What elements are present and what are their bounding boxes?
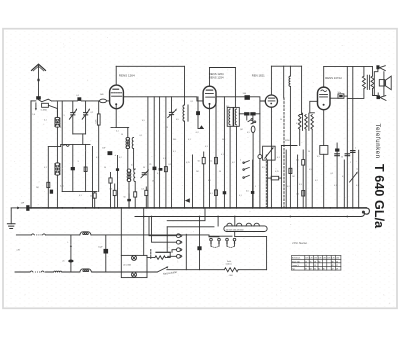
label 0,1e [331, 173, 334, 175]
capacitor coupling [245, 95, 250, 100]
trimmer C1 [69, 101, 77, 134]
svg-text:25: 25 [149, 164, 151, 166]
wire contact4 feed [168, 256, 177, 257]
svg-text:1,85: 1,85 [318, 258, 321, 260]
value label [44, 167, 47, 169]
junction [323, 207, 325, 209]
wire band to rect [234, 232, 236, 237]
label 1W [102, 148, 105, 150]
svg-text:0,2: 0,2 [232, 162, 235, 164]
speaker frame [374, 72, 384, 96]
svg-text:2M: 2M [36, 187, 39, 189]
value label [191, 101, 194, 103]
value label [188, 139, 191, 141]
svg-text:57: 57 [336, 265, 338, 267]
wire grid line left [51, 100, 77, 102]
value label [280, 119, 282, 121]
label field1 [227, 261, 232, 263]
wire col344 [343, 160, 345, 208]
value label [60, 186, 64, 188]
svg-text:0,1: 0,1 [140, 135, 143, 137]
svg-text:Strom mA: Strom mA [292, 260, 300, 263]
value label [277, 157, 280, 159]
arrow vert70 [70, 244, 72, 247]
antenna [32, 64, 46, 71]
wire switch to coil [48, 105, 57, 117]
wire vert105 [105, 235, 107, 272]
resistor col216 a [215, 157, 218, 163]
value label [323, 167, 324, 169]
svg-text:0,25: 0,25 [60, 186, 64, 188]
wire cap198 drop [197, 97, 199, 111]
label 0,2 [196, 132, 200, 134]
volume pot arrow [265, 147, 274, 158]
value label [36, 187, 39, 189]
trimmer C3 [168, 97, 177, 208]
svg-text:0,5: 0,5 [246, 191, 249, 193]
secondary rect [235, 236, 267, 269]
value label [247, 132, 250, 134]
wire V2 anode up [209, 68, 211, 87]
table row labels [292, 257, 301, 271]
svg-text:0,1: 0,1 [277, 157, 280, 159]
capacitor bus start [26, 205, 29, 211]
value label [96, 157, 99, 159]
scan specks [14, 37, 390, 303]
svg-text:2: 2 [240, 160, 241, 162]
switch arrow contact [185, 198, 190, 203]
wire stub2 link [209, 236, 219, 238]
wire det2 down [305, 129, 307, 208]
svg-text:13: 13 [314, 265, 316, 267]
choke 290 [289, 76, 290, 86]
wire second bus [135, 214, 364, 217]
svg-text:1M: 1M [240, 129, 243, 131]
label tube V2 line1 [209, 72, 224, 76]
wire trimmer join [73, 133, 86, 135]
wire col281 [280, 146, 282, 208]
wire col267 [267, 160, 269, 208]
det coil 1 [298, 115, 301, 130]
junction [128, 207, 130, 209]
junction [30, 207, 32, 209]
junction [302, 207, 304, 209]
wire col92 [92, 147, 94, 208]
wire grid to tube1 [107, 100, 110, 102]
svg-text:0,1: 0,1 [188, 139, 191, 141]
wire V1 cathode down [115, 109, 117, 128]
wire col143 down [143, 208, 145, 256]
resistor 1k [100, 99, 107, 103]
value label [157, 173, 160, 175]
fuse mains top [31, 234, 45, 236]
svg-text:0,3: 0,3 [110, 188, 113, 190]
label col303b [296, 194, 299, 196]
svg-text:0,1: 0,1 [163, 158, 166, 160]
svg-text:0,1: 0,1 [356, 185, 359, 187]
capacitor elec [108, 151, 113, 155]
svg-text:300: 300 [222, 139, 225, 141]
label 5000 [285, 140, 290, 142]
svg-text:0,25: 0,25 [186, 162, 190, 164]
pot arrow tone [350, 171, 358, 182]
svg-text:0,3: 0,3 [205, 146, 208, 148]
trimmer C2 [82, 101, 90, 134]
svg-text:50: 50 [280, 119, 282, 121]
value label [355, 148, 356, 150]
wave contacts 2 [243, 161, 250, 179]
label r216 [210, 161, 213, 163]
mains switch [157, 266, 168, 272]
svg-text:49: 49 [332, 265, 334, 267]
wire y114 line [239, 113, 260, 115]
svg-text:32: 32 [305, 265, 307, 267]
wire V3 down [270, 107, 272, 208]
label tube V4 [325, 76, 342, 80]
junction [311, 207, 313, 209]
svg-text:0,1: 0,1 [44, 167, 47, 169]
wire V2 cathode down [209, 109, 211, 208]
resistor ant shunt [42, 103, 49, 107]
junction second bus [151, 216, 153, 218]
switch antenna [39, 99, 52, 102]
ground lead [10, 208, 12, 224]
resistor col216 b [215, 190, 218, 196]
band bump 4 [254, 223, 259, 226]
svg-text:1,85: 1,85 [331, 258, 334, 260]
capacitor col337a [335, 149, 339, 152]
wire col98 top [98, 100, 101, 102]
svg-text:59: 59 [310, 269, 312, 271]
wire terminal link [377, 69, 379, 95]
junction second bus [346, 216, 348, 218]
jack circle [258, 155, 262, 159]
capacitor ant series [36, 96, 41, 99]
capacitor col252 [251, 191, 254, 194]
svg-text:25: 25 [166, 127, 168, 129]
wire col252 drop [252, 116, 254, 124]
resistor col290 [289, 168, 292, 173]
capacitor col337b [335, 154, 340, 156]
svg-text:0,1: 0,1 [208, 180, 211, 182]
contact circle 2 [177, 240, 182, 244]
table header row [305, 258, 339, 260]
wire left rail [30, 101, 32, 208]
wire drop to 144 [82, 134, 84, 145]
wire gang 3 [159, 97, 161, 208]
capacitor col117 [116, 168, 119, 171]
wire choke down [289, 86, 291, 207]
svg-text:RENS 1264: RENS 1264 [119, 73, 135, 77]
stub pin 3 [226, 238, 229, 246]
cathode blob V2 [199, 125, 204, 128]
junction [209, 207, 211, 209]
resistor tall 0,06 [97, 114, 100, 125]
value label [342, 176, 345, 178]
wire col117 [117, 156, 119, 208]
resistor r110 [109, 173, 112, 208]
svg-text:1,85: 1,85 [336, 258, 339, 260]
svg-text:0,1MΩ: 0,1MΩ [41, 110, 47, 112]
junction [267, 207, 269, 209]
band bump 2 [237, 223, 242, 226]
wire sel left [167, 208, 205, 221]
wire top line L2 [210, 67, 236, 69]
svg-text:0,25: 0,25 [275, 171, 279, 173]
resistor b4 [145, 187, 148, 208]
wire V4 to bus [323, 154, 325, 208]
wire fuse drop [199, 217, 201, 247]
label tube V2 line2 [209, 75, 224, 79]
value label [222, 139, 225, 141]
svg-text:1,85: 1,85 [327, 258, 330, 260]
fuse mains bottom [30, 271, 44, 273]
label 0,1b [169, 164, 172, 166]
resistor col48 [47, 182, 50, 187]
svg-text:0,2: 0,2 [287, 186, 290, 188]
value label [131, 165, 134, 167]
label 0,5c [246, 191, 249, 193]
svg-text:1: 1 [355, 148, 356, 150]
svg-text:~900: ~900 [228, 275, 232, 277]
wire sec bottom [373, 89, 375, 96]
det coil core [303, 113, 309, 130]
label 1,4F [21, 202, 25, 204]
svg-text:87: 87 [305, 269, 307, 271]
wire col252b [252, 160, 254, 208]
squiggle mark [64, 144, 69, 146]
label 0,3 [110, 188, 113, 190]
svg-text:50: 50 [121, 134, 123, 136]
value label [287, 186, 290, 188]
wire sec top [372, 67, 374, 77]
wire col192 [192, 155, 194, 208]
capacitor g2 [153, 167, 157, 171]
value label [232, 162, 235, 164]
svg-text:T 640 GL/a: T 640 GL/a [372, 164, 386, 229]
svg-text:1,85: 1,85 [314, 258, 317, 260]
wire L2 drop [234, 68, 236, 108]
svg-text:0,5: 0,5 [141, 188, 144, 190]
value label [240, 160, 241, 162]
out transformer core [367, 75, 369, 89]
capacitor vert70 [68, 260, 73, 263]
IF2 box left [227, 107, 233, 126]
value label [116, 131, 119, 133]
junction second bus [217, 216, 219, 218]
label 500 [243, 93, 247, 95]
wire det1 down [299, 129, 301, 145]
value label [91, 112, 94, 114]
label 50b [124, 197, 126, 199]
wire col297 [297, 155, 299, 208]
wire gang 4 [165, 97, 167, 208]
svg-text:45: 45 [318, 269, 320, 271]
label 3 [78, 161, 80, 163]
capacitor col224 [223, 191, 227, 194]
value label [44, 120, 47, 122]
label vert70 [68, 242, 69, 244]
capacitor vert105 [104, 249, 109, 254]
wire main bus [30, 207, 367, 209]
svg-text:56: 56 [336, 261, 338, 263]
tube V4 [318, 87, 331, 110]
svg-text:0,1: 0,1 [173, 151, 176, 153]
svg-text:0,1: 0,1 [210, 161, 213, 163]
svg-text:80: 80 [318, 261, 320, 263]
value label [334, 185, 337, 187]
junction [72, 207, 74, 209]
resistor g4 [164, 167, 167, 172]
stub pin 1 [210, 238, 213, 246]
tube V2 [203, 86, 216, 108]
bump mains bottom [54, 270, 62, 273]
wire jack down [259, 159, 261, 208]
wire tap vertical [61, 101, 63, 192]
value label [196, 171, 199, 173]
svg-text:1,1: 1,1 [296, 160, 299, 162]
wire gang 1 [147, 97, 149, 208]
svg-text:Lampe V: Lampe V [292, 265, 300, 267]
value label [275, 171, 279, 173]
terminal bottom [377, 95, 387, 100]
junction [336, 207, 338, 209]
svg-text:0,1: 0,1 [116, 131, 119, 133]
label 1,4 [32, 114, 36, 116]
label 25 [149, 164, 151, 166]
fuse [197, 246, 201, 250]
svg-text:38: 38 [332, 261, 334, 263]
junction [98, 207, 100, 209]
det coil 2 [305, 115, 308, 130]
wire col216 [215, 97, 217, 208]
svg-text:2M: 2M [196, 171, 199, 173]
wire L3 mid drop [283, 66, 285, 98]
wire top line L3 [271, 65, 301, 67]
junction [224, 207, 226, 209]
value label [341, 157, 343, 159]
dial lamp 2 [132, 272, 137, 277]
arrow ant [35, 103, 37, 111]
wire det to grid [310, 101, 318, 113]
trimmer C4 [141, 169, 149, 178]
capacitor b3 [127, 194, 131, 208]
junction [297, 207, 299, 209]
junction [346, 207, 348, 209]
wire choke drop [289, 66, 291, 76]
wire cap198 down [198, 115, 203, 129]
wire V4 up [323, 67, 325, 88]
junction [184, 207, 186, 209]
junction [159, 207, 161, 209]
junction second bus [143, 216, 145, 218]
wire V4 anode right [330, 97, 338, 99]
junction [57, 207, 59, 209]
tube V3 [265, 95, 277, 107]
label lamps [123, 263, 131, 266]
stub pin 4 [233, 238, 236, 246]
wire sel drop1 [217, 217, 219, 227]
label 0,06 [96, 119, 98, 124]
stub pin 2 [218, 238, 221, 246]
svg-text:2 Pol. Stecker: 2 Pol. Stecker [292, 242, 307, 245]
svg-text:0,1: 0,1 [239, 195, 242, 197]
svg-text:0,5: 0,5 [317, 156, 320, 158]
junction [252, 207, 254, 209]
svg-text:Typ.: Typ. [292, 269, 296, 271]
wire contact1 feed [149, 217, 177, 236]
junction [271, 207, 273, 209]
svg-text:0,1: 0,1 [79, 195, 82, 197]
wire top line L1 [116, 65, 184, 67]
value label [205, 146, 208, 148]
dial lamp 1 [132, 255, 137, 260]
field resistor [224, 268, 238, 272]
label 10uF [98, 246, 103, 248]
svg-text:0,5: 0,5 [247, 132, 250, 134]
resistor ell 252 [251, 126, 255, 208]
wire col98 [98, 101, 100, 192]
wire col167 down [166, 227, 168, 252]
svg-text:(4 0,33A: (4 0,33A [123, 263, 131, 266]
out transformer secondary [371, 76, 374, 88]
tube V1 [110, 85, 124, 109]
value label [166, 127, 168, 129]
value label [296, 123, 299, 125]
value label [173, 139, 176, 141]
junction [165, 207, 167, 209]
wire col167 horiz [167, 226, 214, 228]
speaker magnet [379, 80, 385, 86]
switch contacts [248, 119, 256, 124]
wire col337 [336, 143, 338, 208]
label r203 [198, 161, 200, 163]
wire col259 down [259, 101, 261, 155]
bus arrow [17, 207, 26, 210]
label 0,5 [141, 188, 144, 190]
wire contact2 feed [152, 217, 177, 243]
svg-text:4,5: 4,5 [309, 169, 312, 171]
wire V4 down [323, 110, 325, 146]
wire col85 down [85, 144, 87, 191]
resistor osc [134, 192, 137, 208]
label 900 [228, 275, 232, 277]
wire V3 up [270, 66, 272, 95]
wire col72 down [72, 144, 74, 191]
value label [239, 195, 242, 197]
resistor b1 [93, 192, 96, 208]
svg-text:0,2: 0,2 [315, 180, 318, 182]
svg-text:80: 80 [323, 269, 325, 271]
resistor col303 [302, 150, 305, 208]
svg-text:50: 50 [308, 151, 310, 153]
label field2 [226, 263, 233, 266]
junction [259, 207, 261, 209]
junction [352, 207, 354, 209]
value label [208, 180, 211, 182]
label 4,5 [296, 160, 299, 162]
wire switch to rail [31, 100, 36, 102]
junction [229, 207, 231, 209]
label plus [114, 153, 116, 157]
lamp box [121, 255, 147, 277]
wire grid line mid [81, 100, 99, 102]
table grid [292, 256, 341, 271]
junction [61, 207, 63, 209]
wire col286 [285, 150, 287, 208]
value label [299, 184, 302, 186]
wire col224 [223, 97, 225, 208]
